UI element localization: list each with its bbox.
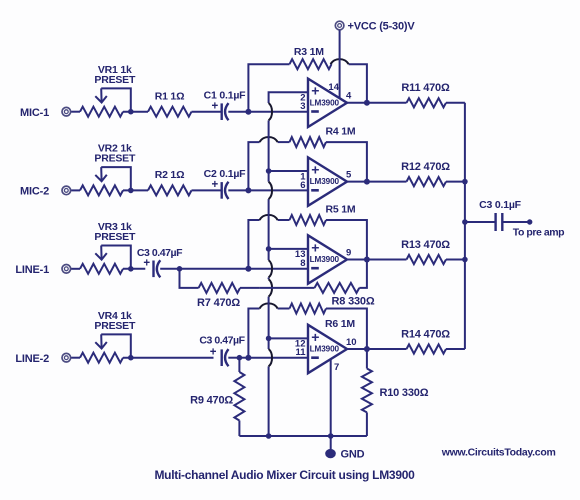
node pin7 ground rail junction — [328, 433, 334, 439]
svg-text:4: 4 — [346, 91, 352, 102]
svg-text:LINE-1: LINE-1 — [15, 264, 49, 276]
capacitor C2 0.1uF — [220, 182, 222, 199]
input terminal LINE-1 — [62, 265, 71, 274]
svg-text:+: + — [311, 83, 319, 99]
wire VR2 track to junction — [123, 189, 148, 191]
svg-text:C1 0.1µF: C1 0.1µF — [204, 90, 247, 102]
wire feedback left vertical R5 — [248, 220, 259, 269]
power terminal +VCC — [335, 21, 344, 30]
wire R7 node to feedback node — [180, 268, 249, 270]
wire bias bus hop — [269, 260, 272, 277]
svg-text:MIC-2: MIC-2 — [20, 186, 49, 198]
wire bias bus segment — [268, 297, 270, 349]
svg-text:R3 1M: R3 1M — [294, 46, 324, 58]
wire R12 to output bus — [446, 181, 465, 183]
svg-text:+: + — [311, 161, 319, 177]
svg-text:R9 470Ω: R9 470Ω — [190, 395, 233, 407]
wire VR4 wiper to track end — [101, 334, 131, 357]
node LINE-1 to R7 junction — [177, 266, 183, 272]
wire VR1 wiper to track end — [101, 88, 131, 111]
node VR1 wiper junction — [128, 109, 134, 115]
resistor R5 1M body — [290, 215, 327, 225]
svg-text:+: + — [311, 239, 319, 255]
svg-text:PRESET: PRESET — [94, 153, 136, 165]
ground terminal GND — [330, 436, 332, 449]
wire U3 output — [347, 259, 407, 261]
node VR2 wiper junction — [128, 188, 134, 194]
op-amp U2 LM3900 triangle — [308, 157, 347, 205]
svg-text:R11 470Ω: R11 470Ω — [401, 82, 450, 94]
resistor R7 470Ω body — [199, 283, 240, 293]
capacitor C3 0.47uF (LINE-2) — [220, 349, 222, 366]
resistor R6 1M body — [290, 304, 327, 314]
wire R6 to right vertical — [326, 309, 367, 350]
resistor R1 1Ω body — [148, 107, 192, 117]
input terminal MIC-2 — [62, 186, 71, 195]
potentiometer VR3 1k track — [80, 264, 123, 274]
svg-text:LINE-2: LINE-2 — [15, 353, 49, 365]
wire LINE-1 input to VR3 — [71, 268, 80, 270]
op-amp U4 LM3900 triangle — [308, 325, 347, 373]
svg-text:R5 1M: R5 1M — [326, 204, 356, 216]
wire VR2 wiper to track end — [101, 167, 131, 190]
svg-text:+: + — [143, 258, 150, 270]
wire C1 to node — [228, 111, 248, 113]
wire LINE-1 node down to R7 — [180, 269, 199, 288]
wire R10 to ground line — [366, 412, 368, 436]
wire bias bus hop — [269, 103, 272, 120]
wire feedback left vertical R3 — [248, 64, 289, 112]
svg-text:C3 0.47µF: C3 0.47µF — [137, 247, 183, 259]
op-amp U3 minus input mark — [311, 267, 319, 270]
potentiometer VR2 1k track — [80, 185, 123, 195]
wire R6 hop-left to zigzag — [278, 308, 290, 310]
wire R4 hop-left to zigzag — [278, 141, 290, 143]
wire bias bus to U2 + input — [269, 170, 308, 172]
svg-text:R14 470Ω: R14 470Ω — [401, 328, 450, 340]
svg-text:3: 3 — [300, 101, 305, 112]
wire output bus to C3 out — [465, 221, 496, 223]
wire VR3 track to junction — [123, 268, 145, 270]
wire bias bus segment — [268, 366, 270, 436]
potentiometer VR4 1k track — [80, 353, 123, 363]
capacitor C3 0.47uF (LINE-1) — [152, 261, 154, 278]
node output bus R12 — [462, 179, 468, 185]
svg-text:+VCC (5-30)V: +VCC (5-30)V — [348, 21, 416, 33]
wire hop R6 over bias bus — [260, 303, 278, 308]
wire MIC-2 input to VR2 — [71, 189, 80, 191]
wire bias bus hop — [269, 182, 272, 199]
node LINE-2 to R9 junction — [237, 355, 243, 361]
svg-text:R4 1M: R4 1M — [326, 126, 356, 138]
wire node to op-amp pin — [248, 111, 308, 113]
wire U2 output — [347, 181, 407, 183]
node U3 output junction — [364, 257, 370, 263]
svg-text:LM3900: LM3900 — [310, 255, 340, 264]
op-amp U4 minus input mark — [311, 356, 319, 359]
resistor R13 470Ω body — [407, 255, 447, 264]
svg-text:14: 14 — [328, 82, 339, 93]
wire C3 to R7 node — [160, 268, 179, 270]
svg-text:R13 470Ω: R13 470Ω — [401, 239, 450, 251]
node bias bus U3 + input — [266, 246, 272, 252]
node output bus R13 — [462, 257, 468, 263]
svg-text:8: 8 — [300, 258, 305, 269]
wire bias bus to U3 + input — [269, 248, 308, 250]
wire R8 up to U3 output node — [359, 260, 367, 288]
wire R4 to right vertical — [326, 142, 367, 182]
wire R7 to bus crossing — [240, 287, 260, 289]
svg-text:www.CircuitsToday.com: www.CircuitsToday.com — [441, 446, 556, 458]
input terminal LINE-2 — [62, 353, 71, 362]
svg-text:C3 0.1µF: C3 0.1µF — [479, 199, 522, 211]
node output bus tap — [462, 219, 468, 225]
wire R1 to C1 — [192, 111, 221, 113]
wire hop R5 over bias bus — [260, 215, 278, 220]
wire R13 to output bus — [446, 259, 465, 261]
svg-text:Multi-channel Audio Mixer Circ: Multi-channel Audio Mixer Circuit using … — [154, 468, 415, 482]
resistor R9 470Ω body — [234, 372, 244, 421]
svg-text:To pre amp: To pre amp — [513, 226, 564, 238]
node to-pre-amp endpoint — [527, 219, 532, 224]
wire R11 to output bus — [446, 102, 465, 104]
wire node to op-amp pin — [248, 189, 308, 191]
svg-text:R10 330Ω: R10 330Ω — [380, 387, 429, 399]
wire bias bus segment — [268, 120, 270, 181]
wire node to op-amp U3 pin 8 — [248, 268, 308, 270]
svg-text:C2 0.1µF: C2 0.1µF — [204, 168, 247, 180]
node U4 output junction — [364, 346, 370, 352]
svg-text:PRESET: PRESET — [94, 74, 136, 86]
node U1 output junction — [364, 100, 370, 106]
wire bias bus to U4 + input — [269, 337, 308, 339]
wire feedback left vertical R4 — [248, 142, 259, 190]
wire R9 to ground line — [238, 421, 240, 437]
wire bias bus segment — [268, 278, 270, 280]
potentiometer VR1 wiper arrow — [100, 88, 102, 102]
op-amp U1 minus input mark — [311, 110, 319, 113]
resistor R3 1M body — [290, 59, 332, 69]
resistor R4 1M body — [290, 137, 327, 147]
wire R9 node to feedback node — [239, 357, 248, 359]
wire non-inverting bias bus (corner from U1 +) — [269, 92, 308, 103]
svg-text:R7 470Ω: R7 470Ω — [197, 297, 240, 309]
node VR4 wiper junction — [128, 355, 134, 361]
wire LINE-2 input to VR4 — [71, 357, 80, 359]
resistor R14 470Ω body — [407, 344, 447, 353]
svg-text:5: 5 — [346, 169, 352, 180]
wire node to op-amp U4 pin 11 — [248, 357, 308, 359]
svg-text:7: 7 — [334, 362, 339, 373]
node bias bus U2 + input — [266, 168, 272, 174]
potentiometer VR4 wiper arrow — [100, 334, 102, 348]
node channel 1 feedback junction — [245, 109, 251, 115]
svg-text:LM3900: LM3900 — [310, 177, 340, 186]
svg-text:MIC-1: MIC-1 — [20, 107, 49, 119]
node bias bus U4 + input — [266, 336, 272, 342]
svg-text:+: + — [212, 101, 219, 113]
wire bias bus hop — [269, 349, 272, 366]
wire U4 output — [347, 348, 407, 350]
node channel 3 feedback junction — [245, 266, 251, 272]
wire bias bus hop — [269, 279, 272, 296]
resistor R10 330Ω body — [362, 369, 372, 413]
svg-text:9: 9 — [346, 247, 351, 258]
node channel 2 feedback junction — [245, 187, 251, 193]
potentiometer VR1 1k track — [80, 107, 123, 117]
wire VR3 wiper to track end — [101, 246, 131, 269]
svg-text:R8 330Ω: R8 330Ω — [332, 296, 375, 308]
wire hop R4 over bias bus — [260, 137, 278, 142]
potentiometer VR3 wiper arrow — [100, 246, 102, 260]
svg-text:+: + — [210, 347, 217, 359]
svg-text:6: 6 — [300, 180, 305, 191]
op-amp U3 LM3900 triangle — [308, 235, 347, 283]
wire C3 out to pre amp — [502, 221, 529, 223]
svg-text:PRESET: PRESET — [94, 320, 136, 332]
node VR3 wiper junction — [128, 266, 134, 272]
wire ground rail — [239, 435, 367, 437]
node U2 output junction — [364, 179, 370, 185]
wire U4 output node down to R10 — [366, 349, 368, 369]
resistor R8 330Ω body — [315, 283, 360, 293]
svg-text:GND: GND — [341, 448, 365, 460]
wire C3b to R9 node — [228, 357, 239, 359]
op-amp U1 LM3900 triangle — [308, 79, 347, 127]
svg-text:R1 1Ω: R1 1Ω — [155, 90, 185, 102]
wire VCC to U1 pin 14 — [339, 30, 341, 98]
node channel 4 feedback junction — [245, 355, 251, 361]
capacitor C1 0.1uF — [220, 103, 222, 120]
resistor R2 1Ω body — [148, 185, 192, 195]
svg-text:PRESET: PRESET — [94, 231, 136, 243]
capacitor C3 0.1uF output — [494, 213, 496, 231]
wire R3 hop-right to right vertical — [349, 64, 367, 103]
svg-text:+: + — [212, 179, 219, 191]
wire bias bus segment — [268, 199, 270, 260]
wire U1 output — [347, 102, 407, 104]
resistor R11 470Ω body — [407, 98, 447, 107]
svg-text:11: 11 — [295, 347, 306, 358]
wire hop R7R8 line over bias bus -- bus hops (vertical) — [260, 287, 315, 289]
input terminal MIC-1 — [62, 107, 71, 116]
svg-text:R2 1Ω: R2 1Ω — [155, 169, 185, 181]
wire MIC-1 input to VR1 — [71, 111, 80, 113]
svg-text:R12 470Ω: R12 470Ω — [401, 161, 450, 173]
svg-text:R6 1M: R6 1M — [325, 318, 355, 330]
svg-text:C3 0.47µF: C3 0.47µF — [199, 335, 245, 347]
svg-text:+: + — [311, 329, 319, 345]
svg-text:LM3900: LM3900 — [310, 345, 340, 354]
wire feedback left vertical R6 — [248, 309, 259, 358]
wire R5 to right vertical — [326, 220, 367, 260]
wire R14 to output bus — [446, 348, 465, 350]
svg-text:LM3900: LM3900 — [310, 98, 340, 107]
wire U4 pin 7 to ground rail — [330, 359, 332, 436]
svg-text:10: 10 — [346, 337, 357, 348]
wire R2 to C2 — [192, 189, 221, 191]
wire C2 to node — [228, 189, 248, 191]
node bias bus at ground rail — [266, 433, 272, 439]
op-amp U2 minus input mark — [311, 189, 319, 192]
wire R5 hop-left to zigzag — [278, 219, 290, 221]
wire hop R3 over VCC line — [331, 59, 349, 64]
resistor R12 470Ω body — [407, 177, 447, 186]
wire VR4 track to junction — [123, 357, 214, 359]
wire LINE-2 node down to R9 — [238, 358, 240, 372]
wire VR1 track to junction — [123, 111, 148, 113]
potentiometer VR2 wiper arrow — [100, 167, 102, 181]
wire output bus vertical — [464, 103, 466, 349]
